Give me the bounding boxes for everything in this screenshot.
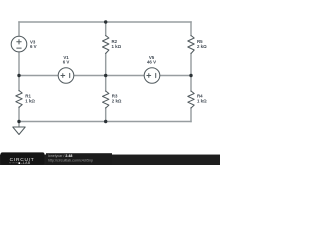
svg-text:http://circuitlab.com/c4dr5np: http://circuitlab.com/c4dr5np [48,158,93,162]
svg-text:2 kΩ: 2 kΩ [197,44,207,49]
svg-text:1 kΩ: 1 kΩ [25,99,35,104]
svg-text:∼∼∼■–LAB: ∼∼∼■–LAB [9,161,31,165]
svg-text:6 V: 6 V [30,44,37,49]
svg-text:6 V: 6 V [63,60,70,65]
svg-text:1 kΩ: 1 kΩ [112,44,122,49]
svg-text:1 kΩ: 1 kΩ [197,99,207,104]
svg-text:46 V: 46 V [147,60,156,65]
svg-text:2 kΩ: 2 kΩ [112,99,122,104]
